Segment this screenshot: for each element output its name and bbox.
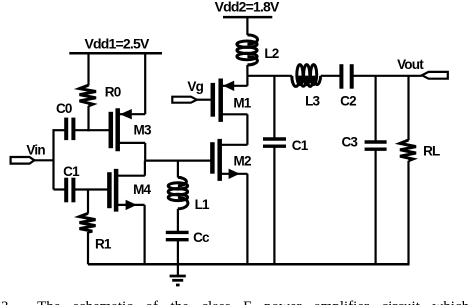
port Vout <box>397 57 448 79</box>
capacitor C3 <box>341 135 386 150</box>
wire C1 to M4 gate <box>73 188 107 190</box>
svg-text:M2: M2 <box>234 153 251 168</box>
wire Vin node to C0 <box>54 129 67 131</box>
capacitor C0 <box>56 101 73 140</box>
capacitor C1 shunt <box>263 138 309 153</box>
wire interstage node <box>145 160 212 162</box>
wire Vin node vertical <box>52 129 54 189</box>
svg-text:Cc: Cc <box>193 230 210 245</box>
inductor L2 <box>237 35 279 65</box>
svg-text:R0: R0 <box>105 85 121 100</box>
wire C2 to Vout <box>352 75 422 77</box>
wire Vin node to C1 <box>54 188 67 190</box>
inductor L1 <box>168 177 210 212</box>
wire R0 to gate node <box>87 106 89 131</box>
wire node to RL <box>407 76 409 141</box>
svg-text:C1: C1 <box>63 164 80 179</box>
wire node to C3 <box>375 76 377 142</box>
wire C1 shunt to rail <box>273 146 275 264</box>
wire rail to L2 <box>246 17 248 35</box>
resistor RL <box>400 140 440 161</box>
wire Cc to rail <box>177 240 179 265</box>
wire RL to rail <box>407 161 409 265</box>
svg-text:M1: M1 <box>233 96 251 111</box>
wire ground rail <box>88 263 410 266</box>
port Vin <box>11 143 54 164</box>
wire M3 drain down <box>144 143 146 161</box>
svg-text:Vg: Vg <box>187 79 203 94</box>
transistor M1 <box>213 79 252 122</box>
svg-text:3. The schematic of the class: 3. The schematic of the class F power am… <box>1 299 470 305</box>
wire Vdd1 rail <box>69 52 162 55</box>
wire M4 source down <box>144 205 146 264</box>
svg-text:R1: R1 <box>95 237 112 252</box>
capacitor Cc <box>166 230 210 245</box>
transistor M4 <box>109 169 151 212</box>
wire rail to R0 <box>87 53 89 85</box>
svg-text:Vdd1=2.5V: Vdd1=2.5V <box>84 35 149 51</box>
inductor L3 <box>292 65 321 109</box>
svg-text:Vdd2=1.8V: Vdd2=1.8V <box>215 0 280 15</box>
transistor M3 <box>111 108 152 151</box>
ground <box>170 264 186 285</box>
svg-text:C3: C3 <box>341 135 358 150</box>
wire M1 source to M2 drain <box>246 114 248 145</box>
wire R1 to ground rail <box>87 232 89 264</box>
svg-text:C2: C2 <box>340 93 356 108</box>
svg-text:Vout: Vout <box>397 57 424 72</box>
wire node to L1 <box>177 161 179 178</box>
wire M2 source down <box>246 174 248 264</box>
svg-text:Vin: Vin <box>26 143 45 158</box>
resistor R0 <box>80 85 97 106</box>
svg-text:M4: M4 <box>133 182 151 197</box>
svg-text:L1: L1 <box>195 197 210 212</box>
wire L3 to C2 <box>321 75 342 77</box>
resistor R1 <box>80 190 112 252</box>
port Vg <box>172 79 210 103</box>
capacitor C2 <box>340 64 356 108</box>
wire output node to L3 <box>247 75 291 77</box>
wire M4 drain up <box>144 161 146 176</box>
transistor M2 <box>212 139 251 181</box>
svg-text:C0: C0 <box>56 101 72 116</box>
wire Vdd2 rail <box>223 16 272 19</box>
wire C0 to M3 gate <box>73 129 109 131</box>
svg-text:L2: L2 <box>264 46 278 61</box>
svg-text:M3: M3 <box>134 122 152 137</box>
wire M1 drain up <box>246 76 248 86</box>
wire L2 to output node <box>246 65 248 76</box>
wire node to C1 shunt <box>273 76 275 139</box>
svg-text:RL: RL <box>423 144 440 159</box>
wire L1 to Cc <box>177 209 179 233</box>
wire C3 to rail <box>375 149 377 264</box>
capacitor C1 input <box>63 164 80 202</box>
svg-text:C1: C1 <box>292 138 309 153</box>
wire rail to M3 source <box>144 53 146 114</box>
svg-text:L3: L3 <box>305 93 320 108</box>
